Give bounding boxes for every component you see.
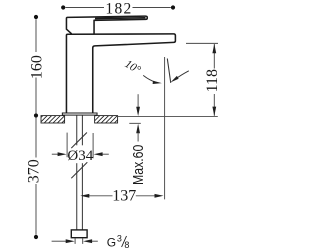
10 degree slant line — [167, 59, 170, 83]
svg-text:Max.60: Max.60 — [130, 144, 146, 185]
faucet lever handle — [66, 16, 147, 34]
countertop deck left (hatched) — [41, 116, 65, 123]
faucet body and spout — [66, 34, 175, 113]
dimension 370 — [35, 118, 37, 235]
lever bar interior fill — [95, 17, 146, 20]
dimension 118 — [186, 42, 218, 44]
dimension 137 — [89, 195, 155, 197]
dimension 160 — [35, 19, 37, 113]
svg-text:160: 160 — [29, 55, 46, 79]
mounting surface line — [118, 115, 218, 117]
supply pipe lower segment — [77, 163, 83, 230]
dimension 182 — [66, 7, 171, 9]
svg-text:G: G — [107, 235, 116, 249]
svg-text:118: 118 — [204, 69, 221, 92]
svg-text:8: 8 — [124, 240, 129, 250]
svg-text:Ø34: Ø34 — [67, 148, 93, 164]
svg-text:3: 3 — [117, 234, 122, 244]
supply pipe upper segment — [77, 115, 83, 145]
10° leader arrow right — [176, 71, 189, 79]
nut G3/8 — [71, 230, 87, 238]
base plate — [62, 113, 97, 115]
pipe break slash lower — [71, 162, 87, 178]
svg-text:137: 137 — [112, 187, 136, 204]
pipe break slash upper — [71, 133, 87, 149]
10° leader arrow left — [143, 75, 156, 82]
water stream centerline — [164, 57, 166, 199]
svg-text:370: 370 — [26, 159, 43, 183]
dimension Max.60 lower arrow — [136, 124, 140, 134]
countertop deck right (hatched) — [95, 116, 118, 123]
deck underside line — [129, 122, 141, 124]
dimension G3/8 — [52, 238, 98, 244]
dimension Max.60 upper arrow — [137, 94, 139, 107]
svg-text:182: 182 — [105, 0, 132, 17]
dimension Ø34 — [52, 133, 109, 159]
